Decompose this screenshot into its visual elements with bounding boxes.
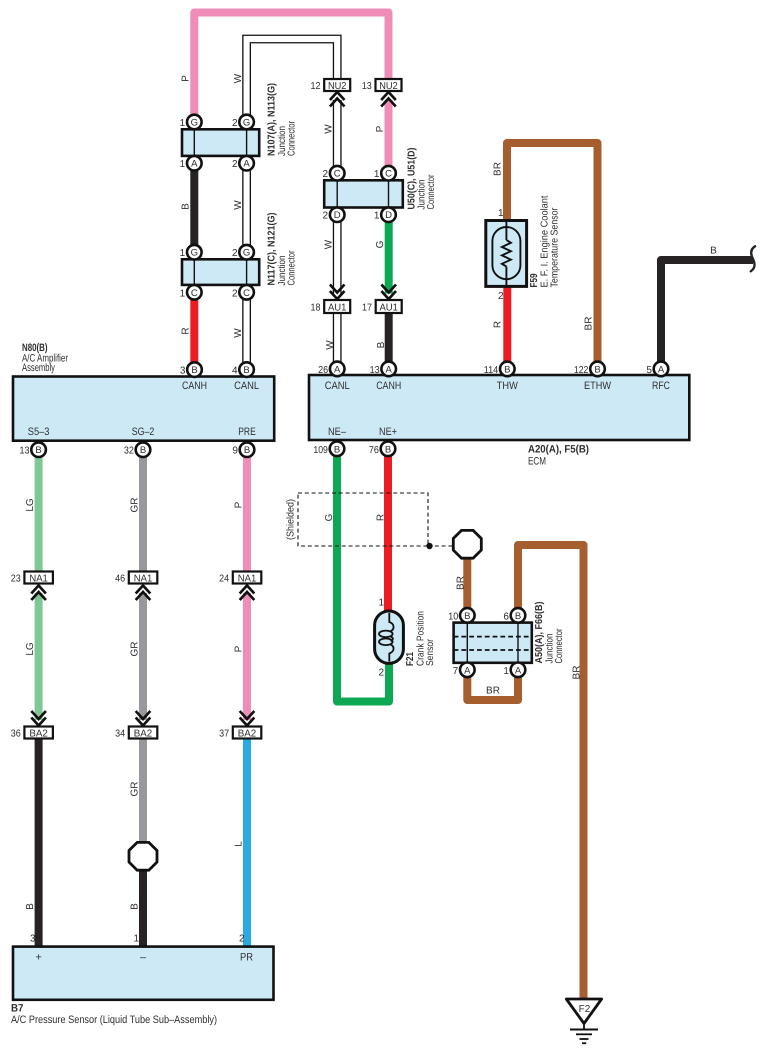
wire label GR N80-NA1 xyxy=(130,498,141,513)
svg-text:RFC: RFC xyxy=(652,380,670,392)
chevrons below NA1-46 xyxy=(136,586,151,601)
junction connector U50(C), U51(D) xyxy=(324,180,403,207)
svg-text:PR: PR xyxy=(240,952,253,964)
connector AU1 (18) xyxy=(324,300,350,313)
connector NA1 (46) xyxy=(129,572,158,585)
label B7 A/C Pressure Sensor xyxy=(11,1003,217,1027)
wire GR NA1-46 to BA2-34 xyxy=(139,593,147,720)
wire B N107-1A to N117-1G xyxy=(190,163,198,253)
pin 3 B7 xyxy=(30,934,36,945)
pin 6B A50 xyxy=(503,608,525,623)
svg-text:13: 13 xyxy=(370,365,380,376)
svg-text:PRE: PRE xyxy=(238,426,256,438)
wire label G U50-AU1 xyxy=(375,240,386,248)
pin 37 label xyxy=(219,728,229,739)
svg-text:THW: THW xyxy=(497,380,519,392)
pin 1A N107 xyxy=(180,156,202,171)
node PRE N80 xyxy=(238,426,256,438)
wire W N107-2A to N117-2G xyxy=(242,163,251,253)
wire W U50-2D to AU1-18 xyxy=(333,215,342,294)
svg-text:NU2: NU2 xyxy=(379,81,398,92)
svg-text:W: W xyxy=(324,124,335,134)
svg-text:2: 2 xyxy=(323,211,329,222)
wire label BR octagon-A50 xyxy=(456,576,467,590)
node CANH ECM xyxy=(376,380,401,392)
svg-text:9: 9 xyxy=(232,446,238,457)
shield dashed box xyxy=(298,493,428,546)
pin 18 label xyxy=(311,302,321,313)
node SG-2 N80 xyxy=(132,426,155,438)
pin 32B N80 SG-2 xyxy=(124,442,150,457)
wire label R F59-ECM xyxy=(493,321,504,328)
sensor F21 Crank Position Sensor xyxy=(375,611,404,663)
svg-text:1: 1 xyxy=(180,288,186,299)
wire P NU2-13 to U50-1C xyxy=(385,100,393,173)
component A20(A), F5(B) ECM box xyxy=(309,375,689,440)
svg-text:B: B xyxy=(244,445,250,456)
wire BR A50 pin 6B to ground F2 xyxy=(518,545,584,999)
svg-text:AU1: AU1 xyxy=(379,302,398,313)
label N80(B) A/C Amplifier Assembly xyxy=(22,342,68,374)
wire label W top xyxy=(233,73,244,83)
junction dot on shield lead xyxy=(426,543,432,549)
pin 109B ECM NE- xyxy=(313,442,344,457)
svg-text:N117(C), N121(G): N117(C), N121(G) xyxy=(267,213,278,286)
pin 2A N107 xyxy=(232,156,254,171)
node - B7 xyxy=(140,952,146,964)
svg-text:37: 37 xyxy=(219,728,229,739)
pin 13B N80 S5-3 xyxy=(20,442,46,457)
svg-text:26: 26 xyxy=(318,365,328,376)
pin 1G N117 xyxy=(180,245,202,260)
node THW ECM xyxy=(497,380,519,392)
wire label L BA2-B7 xyxy=(234,841,245,847)
wire B BA2-36 to B7 pin 3 xyxy=(35,739,43,948)
sensor F59 E.F.I. Engine Coolant Temperature Sensor xyxy=(486,221,527,287)
chevrons below NU2-12 xyxy=(330,92,345,107)
svg-text:D: D xyxy=(334,210,341,221)
pin 2D U50 xyxy=(323,207,345,222)
svg-text:2: 2 xyxy=(232,248,238,259)
svg-text:B: B xyxy=(181,203,192,210)
wire label BR tall ground wire xyxy=(572,666,583,680)
wire LG N80 pin 13B to NA1-23 xyxy=(35,450,43,572)
pin 9B N80 PRE xyxy=(232,442,254,457)
node ETHW ECM xyxy=(584,380,612,392)
label F59 E.F.I. Engine Coolant Temperature Sensor xyxy=(529,195,561,287)
junction connector A50(A), F66(B) xyxy=(454,623,532,663)
svg-text:B: B xyxy=(464,611,470,622)
label (Shielded) xyxy=(286,499,297,540)
svg-text:2: 2 xyxy=(232,118,238,129)
shield octagon crank sensor shield xyxy=(453,530,481,558)
wire label BR A50 U-loop xyxy=(486,686,500,697)
svg-text:B: B xyxy=(504,364,510,375)
svg-text:B: B xyxy=(140,445,146,456)
svg-text:ETHW: ETHW xyxy=(584,380,612,392)
wire P top loop N107-1G to NU2-13 xyxy=(194,13,388,118)
pin 1G N107 xyxy=(180,115,202,130)
svg-text:S5–3: S5–3 xyxy=(28,426,50,438)
svg-text:G: G xyxy=(243,118,250,129)
svg-text:P: P xyxy=(234,501,245,508)
pin 2G N107 xyxy=(232,115,254,130)
svg-text:BR: BR xyxy=(486,686,500,697)
wire BR shield octagon to A50 pin 10B xyxy=(463,550,471,616)
svg-text:A: A xyxy=(515,665,522,676)
svg-text:P: P xyxy=(375,125,386,132)
svg-text:1: 1 xyxy=(498,208,504,219)
svg-text:BA2: BA2 xyxy=(238,728,257,739)
wire W N117-2C to N80 pin 4B xyxy=(242,292,251,370)
svg-text:A50(A), F66(B): A50(A), F66(B) xyxy=(534,602,545,664)
pin 2 B7 xyxy=(239,934,245,945)
svg-text:R: R xyxy=(493,321,504,328)
svg-text:A: A xyxy=(243,159,250,170)
pin 2G N117 xyxy=(232,245,254,260)
wire label LG NA1-BA2 xyxy=(25,642,36,656)
svg-text:2: 2 xyxy=(378,668,384,679)
svg-text:NA1: NA1 xyxy=(134,573,153,584)
pin 76B ECM NE+ xyxy=(369,442,395,457)
svg-text:1: 1 xyxy=(374,211,380,222)
wire LG NA1-23 to BA2-36 xyxy=(35,593,43,720)
svg-text:2: 2 xyxy=(232,159,238,170)
svg-text:5: 5 xyxy=(646,365,652,376)
svg-text:46: 46 xyxy=(115,573,125,584)
svg-text:1: 1 xyxy=(180,159,186,170)
wire label R N117-N80 xyxy=(181,327,192,334)
label F21 Crank Position Sensor xyxy=(405,611,436,666)
connector NA1 (24) xyxy=(233,572,261,585)
pin 1 F59 xyxy=(498,208,504,219)
break symbol at RFC wire end xyxy=(751,246,755,271)
wire B AU1-17 to ECM pin 13A xyxy=(385,313,393,369)
wire R N117-1C to N80 pin 3B xyxy=(190,292,198,370)
svg-text:BA2: BA2 xyxy=(29,728,48,739)
svg-text:A/C Pressure Sensor (Liquid Tu: A/C Pressure Sensor (Liquid Tube Sub–Ass… xyxy=(11,1014,217,1026)
pin 17 label xyxy=(362,302,372,313)
svg-text:17: 17 xyxy=(362,302,372,313)
svg-text:G: G xyxy=(375,240,386,248)
svg-text:34: 34 xyxy=(115,728,125,739)
chevrons above BA2-36 xyxy=(31,711,46,726)
svg-text:36: 36 xyxy=(11,728,21,739)
wire P N80 pin 9B to NA1-24 xyxy=(243,450,251,572)
label N107(A), N113(G) Junction Connector xyxy=(267,83,298,156)
pin 4B N80 CANL xyxy=(232,362,254,377)
svg-text:114: 114 xyxy=(484,365,499,376)
svg-text:Connector: Connector xyxy=(426,174,437,210)
svg-text:BR: BR xyxy=(572,666,583,680)
shield octagon at GR/B junction column 2 xyxy=(129,842,157,870)
svg-text:13: 13 xyxy=(20,446,30,457)
node RFC ECM xyxy=(652,380,670,392)
label U50(C), U51(D) Junction Connector xyxy=(407,148,438,210)
pin 34 label xyxy=(115,728,125,739)
svg-text:W: W xyxy=(325,340,336,350)
svg-text:BR: BR xyxy=(584,317,595,331)
svg-text:A: A xyxy=(658,364,665,375)
wire label B AU1-ECM xyxy=(376,341,387,348)
svg-text:B: B xyxy=(376,341,387,348)
pin 23 label xyxy=(11,573,21,584)
svg-text:32: 32 xyxy=(124,446,134,457)
pin 26A ECM CANL xyxy=(318,362,344,377)
node CANL ECM xyxy=(325,380,350,392)
connector BA2 (34) xyxy=(129,727,158,740)
wire label W AU1-ECM xyxy=(325,340,336,350)
svg-text:G: G xyxy=(191,248,198,259)
svg-text:13: 13 xyxy=(362,81,372,92)
svg-text:F21: F21 xyxy=(405,652,416,666)
connector NU2 (13) xyxy=(376,79,402,92)
wire label W N117-N80 xyxy=(233,328,244,338)
svg-text:CANH: CANH xyxy=(182,380,207,392)
connector NU2 (12) xyxy=(324,79,350,92)
wire label B col1 BA2-B7 xyxy=(25,903,36,910)
svg-text:76: 76 xyxy=(369,445,379,456)
label A20(A), F5(B) ECM xyxy=(528,444,589,468)
svg-text:23: 23 xyxy=(11,573,21,584)
svg-text:1: 1 xyxy=(374,169,380,180)
wire BR A50 pin 7A to A50 pin 1A U-loop xyxy=(467,670,518,700)
node NE+ ECM xyxy=(379,426,397,438)
svg-text:B: B xyxy=(191,365,197,376)
chevrons above BA2-34 xyxy=(136,711,151,726)
wire label B col2 octagon-B7 xyxy=(130,903,141,910)
svg-text:Connector: Connector xyxy=(554,628,565,664)
svg-text:A: A xyxy=(464,665,471,676)
svg-text:2: 2 xyxy=(239,934,245,945)
svg-text:B: B xyxy=(710,246,717,257)
ground F2 symbol xyxy=(566,999,601,1043)
pin 46 label xyxy=(115,573,125,584)
svg-text:2: 2 xyxy=(323,169,329,180)
wire R F59 pin2 to ECM pin 114B xyxy=(503,281,511,369)
wire label B N107-N117 xyxy=(181,203,192,210)
svg-text:B: B xyxy=(334,444,340,455)
pin 10B A50 xyxy=(448,608,474,623)
svg-text:AU1: AU1 xyxy=(328,302,347,313)
svg-text:1: 1 xyxy=(503,666,509,677)
svg-text:NE+: NE+ xyxy=(379,426,397,438)
svg-text:A: A xyxy=(386,364,393,375)
wire label W U50-AU1 xyxy=(324,239,335,249)
wire GR N80 pin 32B to NA1-46 xyxy=(139,450,147,572)
svg-text:ECM: ECM xyxy=(528,456,546,468)
svg-text:C: C xyxy=(334,169,341,180)
pin 1 F21 xyxy=(378,598,384,609)
node S5-3 N80 xyxy=(28,426,50,438)
wire label G NE- xyxy=(324,513,335,521)
chevrons below NU2-13 xyxy=(381,92,396,107)
svg-text:D: D xyxy=(385,210,392,221)
chevrons below NA1-23 xyxy=(31,586,46,601)
svg-text:4: 4 xyxy=(232,366,238,377)
svg-text:1: 1 xyxy=(133,934,139,945)
svg-text:B7: B7 xyxy=(11,1003,24,1015)
node PR B7 xyxy=(240,952,253,964)
pin 13 label xyxy=(362,81,372,92)
svg-text:+: + xyxy=(35,952,41,964)
svg-text:GR: GR xyxy=(130,498,141,513)
svg-text:10: 10 xyxy=(448,611,458,622)
svg-text:P: P xyxy=(181,75,192,82)
wire P NA1-24 to BA2-37 xyxy=(243,593,251,720)
wire B shield octagon to B7 pin 1 xyxy=(139,857,147,947)
svg-text:LG: LG xyxy=(25,642,36,656)
wire label B RFC xyxy=(710,246,717,257)
svg-text:W: W xyxy=(324,239,335,249)
svg-text:F2: F2 xyxy=(579,1004,591,1015)
wire label P NU2-U50 xyxy=(375,125,386,132)
connector AU1 (17) xyxy=(376,300,402,313)
svg-text:Temperature Sensor: Temperature Sensor xyxy=(550,207,561,288)
wire L BA2-37 to B7 pin 2 xyxy=(243,739,251,948)
svg-text:NU2: NU2 xyxy=(328,81,347,92)
pin 1 B7 xyxy=(133,934,139,945)
wire GR BA2-34 to shield octagon xyxy=(139,739,147,857)
svg-text:BA2: BA2 xyxy=(134,728,153,739)
svg-text:C: C xyxy=(385,169,392,180)
chevrons below NA1-24 xyxy=(240,586,255,601)
wire label P top left xyxy=(181,75,192,82)
wire label BR right of F59 xyxy=(584,317,595,331)
svg-text:SG–2: SG–2 xyxy=(132,426,155,438)
svg-text:18: 18 xyxy=(311,302,321,313)
svg-text:G: G xyxy=(324,513,335,521)
svg-text:(Shielded): (Shielded) xyxy=(286,499,297,540)
chevrons above AU1-18 xyxy=(330,285,345,300)
pin 24 label xyxy=(219,573,229,584)
pin 7A A50 xyxy=(453,663,475,678)
svg-text:B: B xyxy=(35,445,41,456)
svg-text:NA1: NA1 xyxy=(238,573,257,584)
chevrons above AU1-17 xyxy=(381,285,396,300)
svg-text:A: A xyxy=(191,159,198,170)
svg-text:W: W xyxy=(233,200,244,210)
svg-text:G: G xyxy=(243,248,250,259)
chevrons above BA2-37 xyxy=(240,711,255,726)
node CANH N80 xyxy=(182,380,207,392)
wire W NU2-12 to U50-2C xyxy=(333,100,342,173)
svg-text:1: 1 xyxy=(180,248,186,259)
svg-text:L: L xyxy=(234,841,245,847)
svg-text:B: B xyxy=(594,364,600,375)
svg-text:GR: GR xyxy=(130,782,141,797)
node CANL N80 xyxy=(234,380,259,392)
svg-text:W: W xyxy=(233,73,244,83)
svg-text:–: – xyxy=(140,952,146,964)
pin 1C U50 xyxy=(374,166,396,181)
component N80(B) A/C Amplifier Assembly box xyxy=(13,377,274,441)
wire label LG N80-NA1 xyxy=(25,498,36,512)
svg-text:A: A xyxy=(334,364,341,375)
svg-text:R: R xyxy=(181,327,192,334)
svg-text:24: 24 xyxy=(219,573,229,584)
svg-text:B: B xyxy=(385,444,391,455)
svg-text:NE–: NE– xyxy=(328,426,346,438)
svg-text:F59: F59 xyxy=(529,273,540,287)
junction connector N117(C), N121(G) xyxy=(182,259,259,285)
wire label GR NA1-BA2 xyxy=(130,642,141,657)
wire G U50-1D to AU1-17 xyxy=(385,215,393,294)
svg-text:3: 3 xyxy=(180,366,186,377)
svg-text:Connector: Connector xyxy=(287,120,298,156)
svg-text:BR: BR xyxy=(456,576,467,590)
svg-text:G: G xyxy=(191,118,198,129)
svg-text:109: 109 xyxy=(313,445,328,456)
wire B ECM pin 5A RFC to break xyxy=(661,260,753,369)
wire label BR F59 top xyxy=(493,162,504,176)
svg-text:CANL: CANL xyxy=(325,380,350,392)
svg-text:N107(A), N113(G): N107(A), N113(G) xyxy=(267,83,278,156)
svg-text:C: C xyxy=(243,288,250,299)
svg-text:GR: GR xyxy=(130,642,141,657)
svg-text:Assembly: Assembly xyxy=(22,362,55,374)
pin 2 F59 xyxy=(498,291,504,302)
svg-text:6: 6 xyxy=(503,611,509,622)
wire label GR BA2-octagon xyxy=(130,782,141,797)
connector BA2 (36) xyxy=(24,727,53,740)
pin 2 F21 xyxy=(378,668,384,679)
svg-text:W: W xyxy=(233,328,244,338)
shield dashed lead to octagon xyxy=(428,545,454,547)
wire label P N80-NA1 xyxy=(234,501,245,508)
label A50(A), F66(B) Junction Connector xyxy=(534,602,565,664)
svg-text:BR: BR xyxy=(493,162,504,176)
svg-text:B: B xyxy=(515,611,521,622)
svg-text:B: B xyxy=(243,365,249,376)
pin 2C U50 xyxy=(323,166,345,181)
svg-text:CANH: CANH xyxy=(376,380,401,392)
svg-text:R: R xyxy=(376,514,387,521)
pin 3B N80 CANH xyxy=(180,362,202,377)
svg-text:122: 122 xyxy=(574,365,589,376)
svg-text:Connector: Connector xyxy=(287,250,298,286)
component B7 A/C Pressure Sensor box xyxy=(13,947,274,1000)
pin 1C N117 xyxy=(180,285,202,300)
pin 2C N117 xyxy=(232,285,254,300)
svg-text:NA1: NA1 xyxy=(29,573,48,584)
pin 12 label xyxy=(311,81,321,92)
pin 1D U50 xyxy=(374,207,396,222)
connector BA2 (37) xyxy=(233,727,261,740)
svg-text:3: 3 xyxy=(30,934,36,945)
svg-text:A20(A), F5(B): A20(A), F5(B) xyxy=(528,444,589,456)
svg-text:7: 7 xyxy=(453,666,459,677)
wire R ECM pin 76B NE+ to F21 pin 1 xyxy=(384,449,392,618)
node NE- ECM xyxy=(328,426,346,438)
svg-text:CANL: CANL xyxy=(234,380,259,392)
svg-text:B: B xyxy=(25,903,36,910)
svg-text:1: 1 xyxy=(378,598,384,609)
pin 114B ECM THW xyxy=(484,362,515,377)
wire label R NE+ xyxy=(376,514,387,521)
pin 5A ECM RFC xyxy=(646,362,668,377)
svg-text:B: B xyxy=(130,903,141,910)
svg-text:LG: LG xyxy=(25,498,36,512)
pin 122B ECM ETHW xyxy=(574,362,605,377)
wire BR F59 pin1 loop to ECM pin 122B xyxy=(507,143,598,369)
label N117(C), N121(G) Junction Connector xyxy=(267,213,298,286)
wire label P NA1-BA2 xyxy=(234,645,245,652)
pin 36 label xyxy=(11,728,21,739)
wire W AU1-18 to ECM pin 26A xyxy=(333,313,342,369)
svg-text:2: 2 xyxy=(498,291,504,302)
pin 1A A50 xyxy=(503,663,525,678)
